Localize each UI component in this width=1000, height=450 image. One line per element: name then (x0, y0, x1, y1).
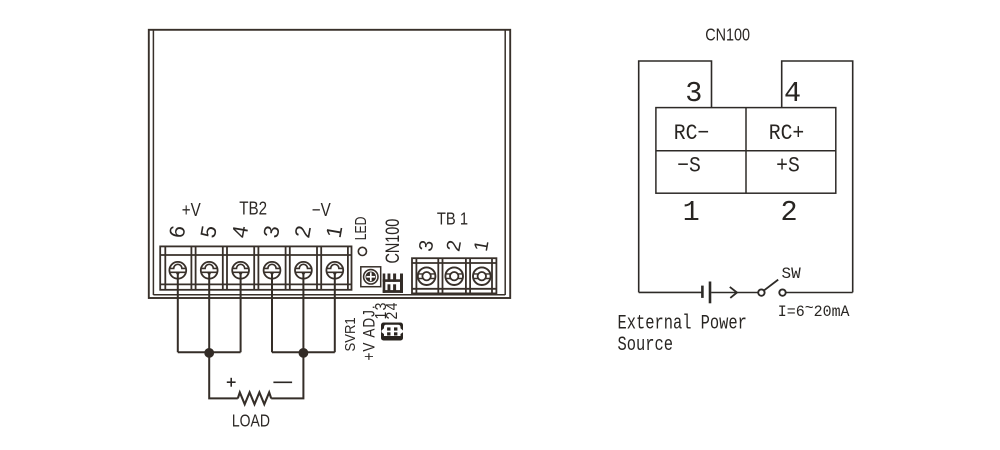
wire battery to switch (711, 292, 757, 294)
svg-text:CN100: CN100 (382, 219, 403, 264)
wire bottom left (639, 291, 702, 293)
connector CN100 (side view on unit) (383, 274, 403, 293)
CN100 housing outline (639, 61, 853, 292)
svg-text:TB 1: TB 1 (437, 209, 468, 229)
svg-text:SVR1: SVR1 (341, 317, 358, 351)
LED indicator circle (358, 247, 366, 255)
svg-text:LOAD: LOAD (232, 412, 270, 431)
output wires and load (178, 273, 335, 405)
wire drop right (271, 352, 303, 398)
svg-text:RC−: RC− (674, 122, 710, 146)
battery short bar (701, 286, 704, 298)
wire terminal 4 (240, 273, 242, 353)
svg-text:+V: +V (182, 200, 202, 221)
svg-text:2: 2 (780, 196, 797, 229)
TB2 terminal 6 screw (169, 262, 186, 279)
resistor LOAD (238, 392, 271, 404)
wire drop left (209, 352, 238, 398)
TB2 terminal 4 screw (232, 262, 249, 279)
svg-text:4: 4 (784, 77, 801, 110)
wire terminal 3 (271, 273, 273, 353)
switch contact right (779, 289, 785, 295)
junction node left (204, 348, 214, 358)
TB2 terminal 1 screw (326, 262, 343, 279)
CN100 footprint (2x2 pins) (381, 323, 403, 341)
svg-text:I=6~20mA: I=6~20mA (778, 299, 851, 321)
terminal table (656, 108, 836, 194)
terminal block TB2 frame (160, 246, 351, 289)
TB1 terminal 3 screw (418, 267, 436, 285)
svg-text:−V: −V (312, 200, 332, 221)
terminal block TB1 frame (412, 258, 496, 293)
svg-text:−S: −S (677, 155, 701, 179)
wire terminal 6 (177, 273, 179, 353)
svg-text:External Power: External Power (618, 313, 747, 335)
TB1 terminal 1 screw (473, 267, 491, 285)
wire terminal 5 (208, 273, 210, 353)
svg-text:RC+: RC+ (769, 122, 805, 146)
polarity minus (273, 381, 292, 383)
svg-text:LED: LED (351, 217, 369, 241)
svg-text:+S: +S (776, 155, 800, 179)
TB1 terminal 2 screw (445, 267, 463, 285)
battery long bar (709, 282, 712, 304)
wire join right (272, 351, 335, 353)
svg-text:Source: Source (618, 334, 673, 356)
svg-text:CN100: CN100 (705, 26, 750, 44)
switch contact left (758, 289, 764, 295)
power supply enclosure (149, 30, 510, 298)
TB2 terminal 2 screw (295, 262, 312, 279)
svg-text:SW: SW (782, 265, 802, 283)
polarity plus (227, 378, 236, 387)
TB2 terminal 3 screw (264, 262, 281, 279)
svg-text:3: 3 (685, 77, 702, 110)
wire join left (178, 351, 241, 353)
switch lever (764, 280, 778, 291)
svg-text:1: 1 (683, 196, 700, 229)
junction node right (299, 348, 309, 358)
wire bottom right (786, 292, 852, 294)
svg-text:24: 24 (385, 301, 402, 319)
arrow head (730, 287, 737, 298)
potentiometer SVR1 (361, 267, 381, 287)
wire terminal 1 (334, 273, 336, 353)
wire terminal 2 (302, 273, 304, 353)
TB2 terminal 5 screw (201, 262, 218, 279)
svg-text:TB2: TB2 (239, 198, 267, 219)
